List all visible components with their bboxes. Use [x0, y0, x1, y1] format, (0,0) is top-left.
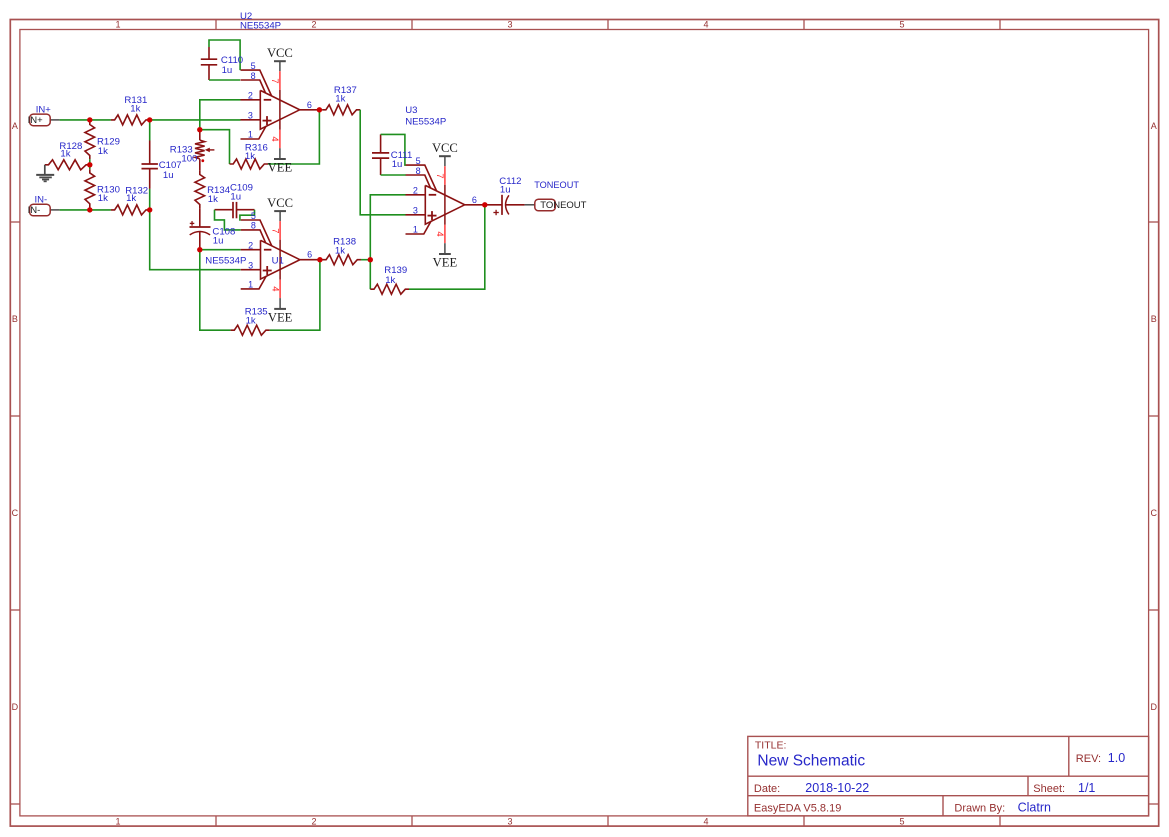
svg-text:NE5534P: NE5534P [240, 20, 281, 31]
svg-text:4: 4 [434, 231, 445, 236]
wire C109 right to U1 pin5 [240, 210, 255, 220]
svg-text:VCC: VCC [432, 141, 458, 155]
svg-text:8: 8 [251, 221, 256, 231]
wire C111 bottom to U3 pin8 [381, 174, 406, 176]
svg-text:1u: 1u [213, 236, 224, 247]
wire C109 left to U1 pin8 [215, 210, 241, 230]
svg-text:5: 5 [251, 61, 256, 71]
wire R131 to U2 pin3 [150, 119, 241, 121]
resistor R135 [231, 325, 270, 335]
svg-text:3: 3 [413, 205, 418, 215]
resistor R131 [111, 115, 150, 125]
resistor R134 [195, 159, 205, 208]
svg-text:4: 4 [269, 136, 280, 141]
node R138-R139-U3pin2 junction [368, 257, 373, 262]
op-amp U3 pin numbers [413, 156, 477, 237]
port IN+ [28, 114, 60, 126]
svg-text:1u: 1u [500, 184, 511, 195]
svg-text:2: 2 [248, 90, 253, 100]
resistor R129 [85, 121, 95, 159]
node U1 output junction [317, 257, 322, 262]
svg-text:NE5534P: NE5534P [205, 256, 246, 267]
svg-text:5: 5 [416, 156, 421, 166]
svg-text:Date:: Date: [754, 783, 780, 795]
title block title value New Schematic [757, 753, 865, 770]
svg-text:7: 7 [269, 78, 280, 83]
title block Sheet label [1033, 783, 1065, 795]
label C109 [230, 183, 253, 203]
wire R133 node to R316 [200, 130, 230, 164]
svg-text:1k: 1k [98, 146, 108, 157]
port TONEOUT [525, 199, 587, 211]
svg-text:IN-: IN- [28, 205, 41, 216]
svg-text:TONEOUT: TONEOUT [534, 180, 579, 190]
svg-text:1: 1 [115, 20, 120, 30]
label IN- [35, 195, 48, 206]
wire R130 to IN- rail [89, 208, 91, 210]
label R138 [333, 236, 356, 256]
node R133 top junction [197, 127, 202, 132]
svg-text:8: 8 [251, 71, 256, 81]
op-amp U2 [241, 61, 320, 159]
title block TITLE label [755, 739, 787, 751]
svg-text:2: 2 [413, 185, 418, 195]
svg-text:1k: 1k [385, 275, 395, 286]
wire C108 to U1 pin2 [200, 249, 241, 251]
wire U1 out to R138 [320, 259, 323, 261]
label TONEOUT [534, 180, 579, 190]
svg-text:3: 3 [507, 816, 512, 826]
svg-text:TONEOUT: TONEOUT [540, 200, 586, 211]
node U3 output junction [482, 202, 487, 207]
svg-text:100: 100 [181, 154, 197, 165]
svg-text:Clatrn: Clatrn [1018, 800, 1051, 814]
svg-text:1k: 1k [245, 151, 255, 162]
svg-text:U1: U1 [272, 256, 284, 267]
wire R137 to U3 pin3 [360, 110, 406, 215]
capacitor C110 [201, 47, 217, 80]
label R139 [384, 265, 407, 286]
title block grid [748, 736, 1149, 816]
power VCC U3 text [432, 141, 458, 155]
svg-text:Sheet:: Sheet: [1033, 783, 1065, 795]
svg-text:3: 3 [248, 110, 253, 120]
wire IN+ to R131 [60, 119, 111, 121]
op-amp U3 [406, 156, 485, 254]
power VEE U3 text [433, 256, 458, 270]
node U2 output junction [317, 107, 322, 112]
wire U2 pin2 to R133 node [200, 100, 241, 130]
wire R138 to node [361, 259, 370, 261]
wire U2 out to R137 [319, 109, 322, 111]
power VEE U2 text [268, 161, 293, 175]
wire C107 top [149, 120, 151, 141]
title block date value 2018-10-22 [805, 781, 869, 795]
resistor R132 [111, 205, 150, 215]
wire C110 bottom to U2 pin8 [209, 79, 240, 81]
svg-text:NE5534P: NE5534P [405, 116, 446, 127]
label R316 [245, 142, 268, 162]
svg-text:VEE: VEE [433, 256, 458, 270]
label R129 [97, 137, 120, 157]
svg-text:IN+: IN+ [28, 115, 43, 126]
wire node up to U3 pin2 [370, 195, 405, 260]
svg-text:U3: U3 [405, 105, 417, 116]
power VEE U1 text [268, 311, 293, 325]
label C111 [391, 150, 413, 170]
node IN- junction [87, 207, 92, 212]
wire R130 top stub [89, 165, 91, 169]
power VCC U2 text [267, 46, 293, 60]
wire R135 to U1 output [270, 260, 320, 331]
svg-text:6: 6 [472, 195, 477, 205]
port IN- [28, 204, 60, 216]
resistor R138 [322, 255, 361, 265]
resistor R316 [230, 159, 269, 169]
svg-text:A: A [1151, 121, 1157, 131]
label R132 [125, 185, 148, 204]
svg-text:1k: 1k [60, 149, 70, 160]
svg-text:D: D [12, 702, 19, 712]
wire R132 node to U1 pin3 [150, 210, 241, 270]
potentiometer R133 [195, 140, 214, 162]
label R130 [97, 185, 120, 205]
label R128 [59, 141, 82, 160]
svg-text:1k: 1k [335, 245, 345, 256]
power VCC U1 text [267, 196, 293, 210]
svg-text:7: 7 [269, 228, 280, 233]
node IN+ junction [87, 117, 92, 122]
svg-text:VEE: VEE [268, 311, 293, 325]
wire R129 top stub [89, 119, 91, 122]
label R134 [207, 185, 231, 205]
capacitor C107 [142, 141, 158, 189]
svg-text:1k: 1k [98, 193, 108, 204]
svg-text:C: C [12, 508, 19, 518]
svg-text:1k: 1k [246, 316, 256, 327]
svg-text:2018-10-22: 2018-10-22 [805, 781, 869, 795]
svg-text:1k: 1k [208, 194, 218, 205]
svg-text:7: 7 [434, 173, 445, 178]
svg-text:Drawn By:: Drawn By: [954, 802, 1005, 814]
title block rev value 1.0 [1108, 751, 1125, 765]
wire R316 to U2 output riser [268, 110, 319, 164]
resistor R139 [370, 284, 409, 294]
svg-text:1u: 1u [222, 65, 233, 76]
node R131-C107 junction [147, 117, 152, 122]
frame column numbers 1-5 [115, 20, 904, 827]
svg-text:1u: 1u [163, 170, 174, 181]
svg-text:1/1: 1/1 [1078, 781, 1095, 795]
title block sheet value 1/1 [1078, 781, 1095, 795]
svg-text:2: 2 [311, 20, 316, 30]
svg-text:1k: 1k [130, 104, 140, 115]
svg-text:1.0: 1.0 [1108, 751, 1125, 765]
resistor R137 [322, 105, 360, 115]
svg-text:1: 1 [413, 225, 418, 235]
wire node down to R139 [369, 260, 371, 290]
svg-text:5: 5 [899, 20, 904, 30]
resistor R128 [45, 160, 90, 170]
wire C110 top to U2 pin5 [209, 40, 240, 70]
wire R139 to C112 node riser [409, 205, 485, 289]
svg-text:4: 4 [703, 816, 708, 826]
svg-text:New Schematic: New Schematic [757, 753, 865, 770]
capacitor C109 [215, 202, 255, 218]
label C110 [221, 55, 243, 76]
svg-text:2: 2 [248, 240, 253, 250]
wire R129 to node [89, 159, 91, 165]
label U1 [205, 256, 284, 267]
ground [36, 165, 54, 182]
wire C111 top to U3 pin5 [381, 134, 406, 165]
op-amp U2 pin numbers [248, 61, 312, 142]
svg-text:1k: 1k [335, 94, 345, 105]
wire R133 top lead [199, 130, 201, 140]
svg-text:D: D [1151, 702, 1158, 712]
label R137 [334, 85, 357, 105]
op-amp U1 [241, 211, 320, 309]
op-amp U1 pin numbers [248, 211, 312, 292]
svg-text:VCC: VCC [267, 196, 293, 210]
svg-text:3: 3 [248, 260, 253, 270]
svg-text:IN+: IN+ [36, 105, 52, 116]
svg-text:6: 6 [307, 100, 312, 110]
label C107 [159, 160, 182, 181]
label U3 [405, 105, 446, 128]
label C108 [212, 226, 235, 246]
svg-text:TITLE:: TITLE: [755, 739, 787, 751]
title block Date label [754, 783, 780, 795]
svg-text:1: 1 [248, 130, 253, 140]
svg-text:3: 3 [507, 20, 512, 30]
svg-text:VEE: VEE [268, 161, 293, 175]
svg-text:VCC: VCC [267, 46, 293, 60]
label R131 [124, 95, 147, 115]
node R132-C107 junction [147, 207, 152, 212]
svg-text:1: 1 [115, 816, 120, 826]
frame row letters A-D [12, 121, 1158, 712]
svg-text:2: 2 [311, 816, 316, 826]
label R135 [245, 307, 268, 327]
label U2 [240, 11, 281, 31]
title block REV label [1076, 753, 1101, 765]
resistor R130 [85, 169, 95, 207]
label IN+ [36, 105, 52, 116]
svg-text:8: 8 [416, 166, 421, 176]
label C112 [499, 176, 521, 196]
svg-text:A: A [12, 121, 18, 131]
capacitor C112 [485, 195, 525, 215]
wire U1 pin2 down for R135 [200, 250, 231, 331]
svg-text:1u: 1u [392, 159, 403, 170]
svg-text:1: 1 [248, 280, 253, 290]
svg-text:4: 4 [703, 20, 708, 30]
svg-text:IN-: IN- [35, 195, 48, 206]
svg-text:C: C [1151, 508, 1158, 518]
svg-text:REV:: REV: [1076, 753, 1101, 765]
node C108-U1 pin2 junction [197, 247, 202, 252]
capacitor C111 [372, 134, 389, 175]
svg-text:5: 5 [251, 211, 256, 221]
svg-text:1k: 1k [126, 193, 136, 204]
svg-text:B: B [12, 314, 18, 324]
node R128-R129-R130 junction [87, 162, 92, 167]
svg-text:EasyEDA V5.8.19: EasyEDA V5.8.19 [754, 802, 841, 814]
svg-text:5: 5 [899, 816, 904, 826]
title block EasyEDA version [754, 802, 841, 814]
label R133 [170, 145, 198, 165]
wire IN- to R132 [60, 209, 111, 211]
svg-text:4: 4 [269, 286, 280, 291]
svg-text:1u: 1u [230, 192, 241, 203]
title block Drawn By label [954, 802, 1005, 814]
svg-text:B: B [1151, 314, 1157, 324]
title block drawn-by value Clatrn [1018, 800, 1051, 814]
capacitor C108 [190, 208, 211, 250]
wire C107 bottom [149, 189, 151, 210]
svg-text:6: 6 [307, 250, 312, 260]
